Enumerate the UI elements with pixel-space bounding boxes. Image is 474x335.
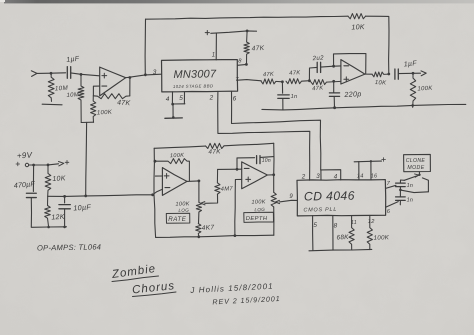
- svg-text:1n: 1n: [407, 183, 414, 189]
- svg-text:47K: 47K: [289, 70, 301, 77]
- node clock-R: [246, 30, 249, 33]
- switch lever: [404, 175, 419, 180]
- junction: [412, 72, 415, 75]
- svg-text:1µF: 1µF: [403, 60, 417, 68]
- svg-text:10K: 10K: [351, 24, 365, 31]
- svg-text:3: 3: [316, 173, 320, 180]
- MN3007 U2 box: [162, 60, 238, 92]
- resistor 100K (output load): [410, 73, 415, 107]
- node mix: [308, 79, 311, 82]
- node bias/input: [80, 73, 83, 76]
- svg-text:3: 3: [153, 69, 157, 76]
- - input wire U1d: [218, 168, 242, 170]
- svg-text:100K: 100K: [170, 153, 184, 159]
- junction: [418, 174, 420, 176]
- svg-text:47K: 47K: [208, 148, 221, 155]
- svg-text:100K: 100K: [373, 234, 389, 242]
- op-amp U1d LFO integrator: [242, 162, 268, 189]
- + stub to bottom rail: [235, 179, 242, 235]
- node U1a output: [129, 76, 132, 79]
- svg-text:7: 7: [387, 181, 391, 187]
- svg-text:7: 7: [235, 77, 239, 83]
- pins 14,16 supply bracket: [354, 160, 381, 163]
- capacitor 1n (pin7): [396, 183, 406, 187]
- junction: [234, 234, 237, 237]
- resistor 4M7 (integrator input): [215, 169, 220, 194]
- wire input to cap: [37, 72, 66, 75]
- junction: [32, 164, 35, 167]
- pin 5 wire: [312, 216, 314, 251]
- LFO bottom rail: [156, 235, 274, 237]
- junction: [63, 226, 66, 229]
- svg-text:10M: 10M: [55, 85, 69, 93]
- junction: [332, 65, 335, 68]
- node pin8: [245, 63, 248, 66]
- svg-text:47K: 47K: [117, 100, 131, 108]
- svg-text:68K: 68K: [336, 234, 349, 242]
- DEPTH box: [244, 212, 274, 222]
- op-amp U1c LFO schmitt: [162, 168, 187, 196]
- ground (pins 4,5): [165, 117, 182, 119]
- junction: [154, 160, 157, 163]
- wire +9V: [29, 164, 59, 165]
- resistor 10K (divider top): [45, 165, 51, 196]
- svg-text:12K: 12K: [51, 214, 65, 222]
- wire to - input: [334, 65, 341, 67]
- switch right contact: [422, 178, 428, 192]
- capacitor 10n (integrator): [237, 158, 255, 170]
- resistor 47K (to + input): [309, 80, 341, 85]
- battery terminal: [25, 163, 28, 166]
- output jack arrow: [421, 71, 426, 76]
- junction: [333, 106, 336, 109]
- CD4046 bottom rail: [309, 249, 372, 250]
- resistor 47K (first LPF): [261, 79, 282, 84]
- svg-text:10M: 10M: [66, 92, 79, 99]
- junction: [236, 168, 239, 171]
- svg-text:14: 14: [357, 174, 364, 180]
- junction: [151, 193, 154, 196]
- svg-text:DEPTH: DEPTH: [246, 216, 268, 222]
- resistor 12K (divider bottom): [45, 196, 51, 227]
- svg-text:2: 2: [209, 95, 214, 102]
- RATE box: [166, 213, 190, 223]
- node output/feedback: [387, 73, 390, 76]
- svg-text:8: 8: [334, 222, 338, 229]
- RATE wiper: [201, 202, 205, 205]
- svg-text:1n: 1n: [407, 197, 414, 203]
- capacitor 1uF (output): [395, 69, 398, 79]
- svg-text:1µF: 1µF: [66, 56, 80, 64]
- junction: [172, 116, 175, 119]
- op-amp U1a input buffer: [100, 67, 126, 96]
- junction: [47, 226, 50, 229]
- capacitor 10uF (Vb): [64, 196, 66, 203]
- resistor 68K (pin 11): [349, 216, 354, 250]
- svg-text:LOG: LOG: [254, 207, 265, 212]
- svg-text:CMOS PLL: CMOS PLL: [303, 207, 337, 214]
- DEPTH wiper to pin 9: [276, 200, 280, 203]
- junction: [63, 195, 66, 198]
- junction: [198, 180, 201, 183]
- svg-text:6: 6: [387, 209, 391, 215]
- LFO right vertical / DEPTH pot: [273, 143, 275, 192]
- U1c output node: [187, 180, 199, 183]
- resistor 47K (pin8 pull): [244, 31, 249, 64]
- svg-text:10K: 10K: [375, 80, 388, 87]
- node LPF1: [281, 80, 284, 83]
- capacitor 220p: [333, 81, 335, 92]
- svg-text:47K: 47K: [312, 85, 324, 92]
- series link between caps: [399, 187, 401, 197]
- capacitor 1n (LPF1): [281, 82, 283, 93]
- switch return wire: [401, 190, 429, 193]
- wire U1a out to MN3007 pin3: [126, 74, 162, 78]
- wire top feedback rail: [144, 19, 146, 74]
- svg-text:4: 4: [334, 173, 338, 180]
- junction: [84, 195, 87, 198]
- svg-text:100K: 100K: [417, 86, 433, 93]
- svg-text:1n: 1n: [291, 94, 298, 100]
- capacitor 470uF: [32, 165, 34, 192]
- wire to output jack: [399, 72, 421, 74]
- junction: [197, 235, 200, 238]
- pin 7 stub: [238, 80, 262, 81]
- switch left contact riser: [400, 180, 404, 183]
- resistor 4K7: [196, 224, 201, 237]
- svg-text:10n: 10n: [262, 158, 271, 164]
- svg-text:RATE: RATE: [168, 216, 186, 223]
- svg-text:4K7: 4K7: [202, 224, 215, 232]
- op-amp U1b output mixer: [341, 60, 365, 84]
- scanner edge band top: [4, 0, 474, 3]
- mid ground rail: [262, 104, 466, 110]
- U1d output: [267, 174, 273, 176]
- input jack arrow: [31, 71, 37, 77]
- svg-text:1024 STAGE BBD: 1024 STAGE BBD: [173, 83, 214, 89]
- svg-text:8: 8: [238, 59, 242, 65]
- pin 8 wire: [332, 216, 334, 251]
- svg-text:CD 4046: CD 4046: [304, 189, 355, 204]
- svg-text:470µF: 470µF: [13, 179, 35, 190]
- LFO top wire + 47K: [154, 146, 205, 148]
- - stub to Vb: [153, 189, 163, 194]
- pins 3,4 bracket: [321, 170, 341, 180]
- junction: [171, 103, 174, 106]
- LFO left vertical: [154, 148, 156, 237]
- capacitor 1uF (input): [67, 67, 70, 79]
- resistor 100K (pin 12): [367, 215, 372, 249]
- wire bias drop to Vb rail: [85, 122, 88, 195]
- feedback loop over U1b: [334, 54, 366, 75]
- ground rail (power): [31, 226, 66, 229]
- svg-text:2u2: 2u2: [311, 55, 324, 63]
- resistor 10K (top rail): [348, 14, 366, 19]
- svg-text:220p: 220p: [343, 89, 362, 99]
- svg-text:9: 9: [289, 194, 293, 200]
- CLONE MODE box: [404, 154, 431, 171]
- svg-text:CLONE: CLONE: [406, 158, 426, 164]
- svg-text:OP-AMPS: TL064: OP-AMPS: TL064: [37, 242, 101, 252]
- svg-text:10K: 10K: [52, 175, 66, 183]
- svg-text:4M7: 4M7: [221, 186, 234, 193]
- svg-text:LOG: LOG: [178, 208, 189, 213]
- resistor 10K (output): [365, 72, 389, 77]
- svg-text:6: 6: [233, 96, 237, 103]
- junction: [333, 106, 336, 109]
- wire - input: [93, 86, 99, 96]
- node top-rail tap: [144, 73, 147, 76]
- node input/R 10M: [50, 72, 53, 75]
- pin 8 stub: [238, 63, 247, 66]
- junction: [370, 160, 372, 162]
- junction: [399, 189, 402, 192]
- wire top rail right + drop: [366, 16, 390, 74]
- junction: [272, 173, 275, 176]
- svg-text:4: 4: [166, 96, 170, 103]
- resistor 47K feedback U1a: [93, 94, 129, 99]
- wire feedback vertical: [129, 78, 131, 96]
- resistor 100K (to bias): [91, 96, 96, 123]
- svg-text:47K: 47K: [252, 45, 265, 53]
- potentiometer 100K LOG RATE: [198, 181, 200, 202]
- Vb rail: [48, 195, 153, 197]
- resistor 10M (bias): [78, 74, 84, 122]
- capacitor 2u2 branch: [309, 67, 316, 80]
- svg-text:10µF: 10µF: [73, 202, 92, 212]
- junction: [332, 80, 335, 83]
- resistor 47K (second LPF): [286, 79, 309, 84]
- wire bias bar: [81, 121, 93, 123]
- svg-text:1: 1: [212, 53, 216, 59]
- svg-text:12: 12: [368, 219, 375, 225]
- + stub: [155, 175, 162, 177]
- resistor 10M (input to ground): [48, 73, 54, 101]
- CD4046 U3 box: [297, 180, 386, 216]
- svg-text:2: 2: [301, 174, 306, 181]
- junction: [47, 164, 50, 167]
- ground (input): [42, 103, 62, 106]
- +9 arrow to rail: [59, 162, 64, 166]
- capacitor 1n (pin6): [396, 197, 406, 201]
- svg-text:MODE: MODE: [407, 165, 424, 171]
- svg-text:MN3007: MN3007: [173, 68, 217, 81]
- svg-text:+9V: +9V: [17, 150, 33, 160]
- svg-text:5: 5: [313, 222, 317, 229]
- svg-text:100K: 100K: [251, 199, 265, 205]
- svg-text:16: 16: [371, 174, 378, 180]
- wire cap to op-amp +: [71, 73, 100, 76]
- svg-text:100K: 100K: [97, 110, 113, 117]
- svg-text:5: 5: [179, 95, 183, 102]
- junction: [411, 104, 414, 107]
- svg-text:47K: 47K: [263, 72, 275, 79]
